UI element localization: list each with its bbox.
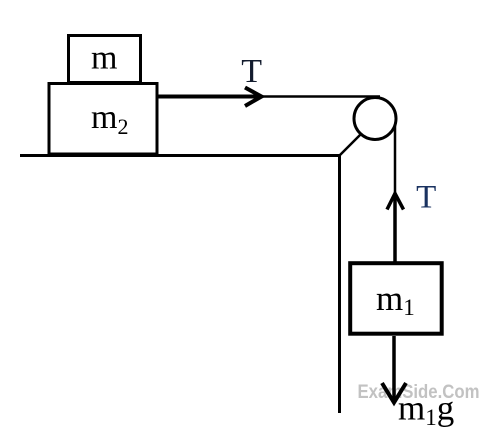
svg-text:T: T — [241, 53, 262, 90]
pulley support strut — [339, 134, 362, 157]
block m2 — [49, 84, 157, 155]
tension arrow T (vertical) head — [387, 194, 404, 210]
vertical rope from pulley to block m1 — [394, 112, 397, 263]
table surface line — [20, 154, 340, 157]
tension arrow T (horizontal) shaft — [157, 95, 260, 99]
pulley — [354, 98, 396, 140]
tension arrow T (vertical) shaft — [393, 194, 397, 262]
svg-text:T: T — [416, 180, 436, 216]
table vertical edge — [338, 154, 341, 413]
tension arrow T (horizontal) head — [245, 88, 262, 107]
svg-text:m: m — [91, 40, 117, 77]
horizontal rope from m2 to pulley — [157, 95, 380, 98]
weight arrow m1g shaft — [392, 336, 396, 399]
block m — [69, 36, 141, 83]
weight arrow m1g head — [382, 383, 406, 403]
block m1 — [350, 263, 442, 334]
